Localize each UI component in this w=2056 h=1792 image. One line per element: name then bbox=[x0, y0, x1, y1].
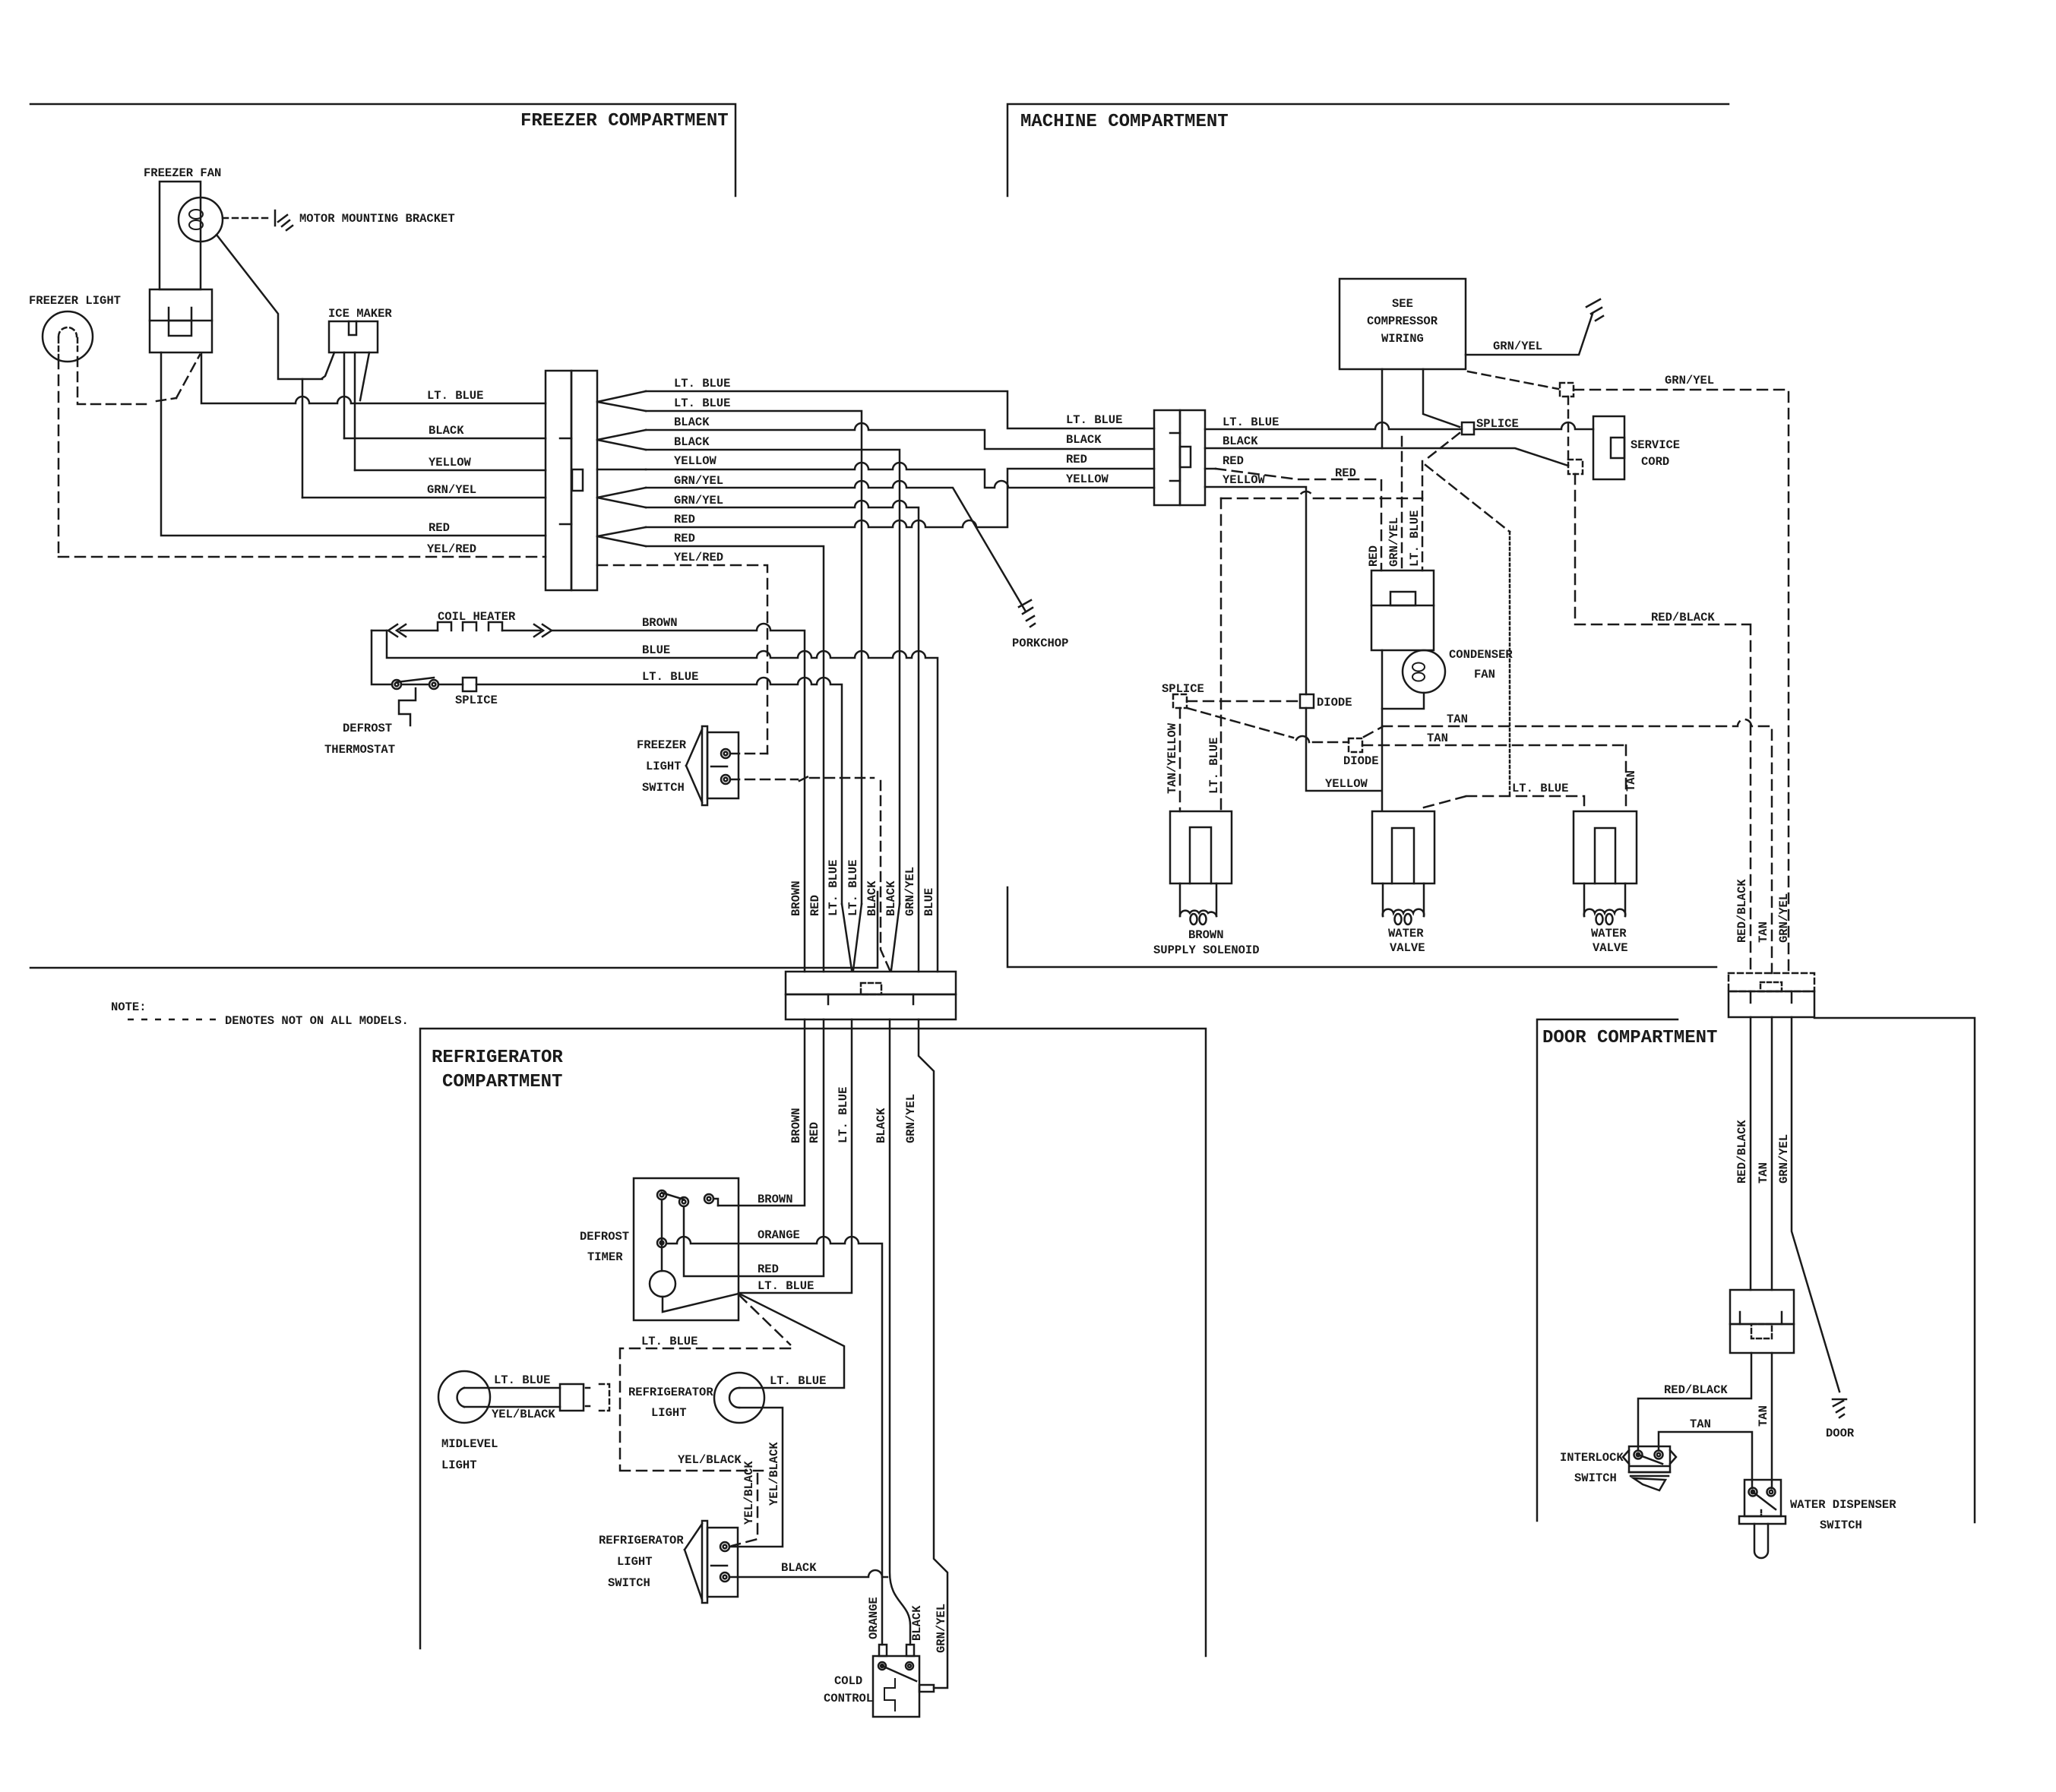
wire ORANGE from timer to cold control bbox=[666, 1237, 882, 1645]
porkchop ground symbol bbox=[1019, 600, 1035, 627]
svg-text:CORD: CORD bbox=[1641, 455, 1669, 469]
svg-text:REFRIGERATOR: REFRIGERATOR bbox=[599, 1534, 684, 1547]
svg-text:BROWN: BROWN bbox=[1188, 928, 1224, 942]
svg-text:FAN: FAN bbox=[1474, 668, 1495, 681]
svg-text:GRN/YEL: GRN/YEL bbox=[935, 1604, 948, 1653]
svg-text:SWITCH: SWITCH bbox=[1820, 1519, 1862, 1532]
freezer fan motor circle bbox=[179, 198, 223, 242]
svg-text:LT. BLUE: LT. BLUE bbox=[827, 860, 840, 916]
defrost thermostat sensing element bbox=[399, 688, 416, 725]
LT. BLUE dashed row to supply solenoid bbox=[1221, 491, 1422, 498]
wire RED dashed to compressor relay bbox=[1216, 469, 1381, 570]
svg-text:SWITCH: SWITCH bbox=[642, 781, 685, 795]
freezer fan mounting plate connector bbox=[150, 289, 212, 352]
wire YEL/RED dashed (drop to freezer light switch) bbox=[597, 565, 767, 754]
svg-text:BLACK: BLACK bbox=[781, 1561, 817, 1575]
svg-text:YELLOW: YELLOW bbox=[674, 454, 717, 468]
svg-text:FREEZER LIGHT: FREEZER LIGHT bbox=[29, 294, 121, 308]
wire RED/BLACK to interlock switch bbox=[1638, 1353, 1751, 1450]
svg-text:WATER: WATER bbox=[1388, 927, 1424, 940]
svg-text:COMPARTMENT: COMPARTMENT bbox=[442, 1072, 562, 1092]
wire RED row (freezer left) bbox=[161, 352, 546, 536]
svg-text:TAN: TAN bbox=[1757, 921, 1770, 943]
freezer light bulb bbox=[43, 311, 93, 362]
svg-text:BROWN: BROWN bbox=[642, 616, 678, 630]
svg-text:DOOR COMPARTMENT: DOOR COMPARTMENT bbox=[1542, 1028, 1717, 1048]
wire GRN/YEL lower (drop V3) bbox=[646, 501, 919, 972]
svg-text:BLACK: BLACK bbox=[875, 1108, 888, 1143]
svg-text:COMPRESSOR: COMPRESSOR bbox=[1367, 314, 1438, 328]
wire RED drop to defrost timer bbox=[684, 1019, 824, 1276]
wire LT. BLUE row through thermostat bbox=[372, 631, 842, 904]
svg-text:LT. BLUE: LT. BLUE bbox=[1408, 510, 1422, 567]
wire YEL/RED dashed into top terminal bbox=[730, 753, 767, 755]
coil heater humps bbox=[438, 622, 502, 631]
svg-text:YELLOW: YELLOW bbox=[429, 456, 472, 469]
rotated labels machine bbox=[1166, 510, 1638, 794]
svg-text:TAN: TAN bbox=[1624, 770, 1638, 792]
svg-text:RED: RED bbox=[429, 521, 450, 535]
svg-text:RED: RED bbox=[808, 895, 822, 916]
LT. BLUE dashed between water valves bbox=[1424, 796, 1584, 811]
svg-text:GRN/YEL: GRN/YEL bbox=[1493, 340, 1542, 353]
wire LT. BLUE upper (to machine) bbox=[646, 391, 1154, 428]
svg-text:SPLICE: SPLICE bbox=[455, 694, 498, 707]
defrost timer contact hook bbox=[713, 1199, 718, 1206]
refrigerator light switch pointer bbox=[685, 1524, 702, 1600]
svg-text:CONTROL: CONTROL bbox=[824, 1692, 873, 1705]
water valve 1 coil bbox=[1383, 909, 1425, 916]
wire LT. BLUE row (freezer left) bbox=[201, 354, 546, 403]
svg-text:LIGHT: LIGHT bbox=[651, 1406, 687, 1420]
freezer light dashed wire down-left (YEL/RED) bbox=[58, 359, 60, 557]
svg-text:LT. BLUE: LT. BLUE bbox=[1512, 782, 1568, 795]
wire YELLOW (to machine) bbox=[646, 463, 1154, 488]
supply solenoid coil bbox=[1180, 911, 1216, 916]
svg-text:ICE MAKER: ICE MAKER bbox=[328, 307, 392, 321]
refrigerator light bbox=[714, 1373, 764, 1423]
wire TAN interlock to dispenser bbox=[1659, 1432, 1752, 1488]
wire RED upper (rises to machine RED) bbox=[646, 469, 1154, 527]
freezer light switch plate bbox=[702, 726, 707, 805]
svg-text:YEL/RED: YEL/RED bbox=[427, 542, 476, 556]
ice maker pin 3 (YELLOW) bbox=[354, 352, 356, 470]
coil heater element (BROWN row) bbox=[372, 624, 805, 972]
svg-text:DEFROST: DEFROST bbox=[580, 1230, 629, 1244]
defrost timer box bbox=[634, 1178, 739, 1320]
LT. BLUE junction to refrigerator light bbox=[739, 1294, 844, 1388]
defrost timer motor bbox=[650, 1271, 675, 1297]
svg-text:LIGHT: LIGHT bbox=[617, 1555, 653, 1569]
svg-text:YELLOW: YELLOW bbox=[1223, 473, 1266, 487]
wire LT. BLUE lower (drop V1) bbox=[646, 411, 862, 904]
freezer light dashed wire to fan plug bbox=[77, 355, 200, 404]
svg-text:BLUE: BLUE bbox=[922, 888, 936, 916]
compressor relay box bbox=[1371, 570, 1434, 650]
water valve 1 box bbox=[1372, 811, 1434, 883]
svg-text:TAN: TAN bbox=[1427, 732, 1448, 745]
svg-text:GRN/YEL: GRN/YEL bbox=[427, 483, 476, 497]
midlevel light bbox=[438, 1371, 490, 1423]
svg-text:TAN: TAN bbox=[1690, 1417, 1711, 1431]
svg-text:GRN/YEL: GRN/YEL bbox=[904, 1094, 918, 1143]
svg-text:RED/BLACK: RED/BLACK bbox=[1735, 879, 1749, 943]
svg-text:BLACK: BLACK bbox=[429, 424, 464, 438]
svg-text:RED: RED bbox=[1066, 453, 1087, 466]
coil heater left arrows bbox=[388, 624, 406, 637]
ice maker box bbox=[329, 321, 378, 352]
refrigerator compartment border bbox=[420, 1029, 1206, 1656]
LT. BLUE dashed to midlevel circuit bbox=[620, 1295, 790, 1471]
svg-text:GRN/YEL: GRN/YEL bbox=[674, 494, 723, 507]
compressor relay GRN/YEL dashed lead bbox=[1401, 437, 1403, 570]
svg-text:LT. BLUE: LT. BLUE bbox=[427, 389, 483, 403]
wire LT. BLUE row to service cord bbox=[1205, 422, 1593, 429]
rotated wire labels above refrigerator connector bbox=[789, 860, 936, 916]
svg-text:LT. BLUE: LT. BLUE bbox=[1223, 416, 1279, 429]
svg-text:BLACK: BLACK bbox=[674, 435, 710, 449]
defrost timer switch arm bbox=[662, 1193, 684, 1199]
svg-text:SPLICE: SPLICE bbox=[1162, 682, 1204, 696]
freezer fan motor coil marks bbox=[189, 210, 203, 219]
freezer fan duct rectangle bbox=[160, 182, 201, 289]
svg-text:LT. BLUE: LT. BLUE bbox=[674, 377, 730, 390]
refrigerator light YEL/BLACK lead bbox=[730, 1408, 783, 1547]
svg-text:TAN: TAN bbox=[1447, 713, 1468, 726]
wire BLACK lower (drop V2) bbox=[646, 450, 900, 904]
splice on LT. BLUE row bbox=[1462, 422, 1474, 435]
defrost thermostat arm bbox=[397, 678, 434, 682]
svg-text:BLACK: BLACK bbox=[1066, 433, 1102, 447]
freezer light switch pointer bbox=[686, 729, 702, 802]
water dispenser switch bbox=[1744, 1480, 1781, 1516]
GRN/YEL dashed wire to door bbox=[1574, 390, 1789, 973]
wire BLACK row (freezer left) bbox=[344, 438, 546, 440]
wire BROWN drop to defrost timer bbox=[718, 1019, 805, 1206]
wire BLACK upper (to machine) bbox=[646, 423, 1154, 449]
svg-text:SUPPLY SOLENOID: SUPPLY SOLENOID bbox=[1153, 943, 1260, 957]
svg-text:ORANGE: ORANGE bbox=[758, 1228, 800, 1242]
supply solenoid box bbox=[1170, 811, 1232, 883]
water valve 2 box bbox=[1574, 811, 1637, 883]
condenser fan return wire bbox=[1382, 693, 1424, 709]
water valve 2 coil bbox=[1584, 909, 1626, 916]
door mid connector bbox=[1730, 1290, 1794, 1324]
svg-text:SWITCH: SWITCH bbox=[1574, 1471, 1617, 1485]
dashed diagonal splice to diode 2 bbox=[1187, 708, 1349, 742]
svg-text:TAN/YELLOW: TAN/YELLOW bbox=[1166, 722, 1179, 794]
compressor lead to BLACK row bbox=[1381, 369, 1384, 448]
condenser fan motor bbox=[1403, 650, 1445, 693]
svg-text:DEFROST: DEFROST bbox=[343, 722, 392, 735]
svg-text:SERVICE: SERVICE bbox=[1631, 438, 1680, 452]
rotated labels refrigerator bbox=[742, 1087, 948, 1653]
svg-text:ORANGE: ORANGE bbox=[867, 1597, 881, 1639]
GRN/YEL drop from ground junction bbox=[302, 379, 304, 498]
svg-text:GRN/YEL: GRN/YEL bbox=[1665, 374, 1714, 387]
svg-text:GRN/YEL: GRN/YEL bbox=[1387, 517, 1401, 567]
svg-text:DENOTES NOT ON ALL MODELS.: DENOTES NOT ON ALL MODELS. bbox=[225, 1014, 409, 1028]
dashed drop from grounding splice to service cord terminal bbox=[1567, 397, 1570, 460]
svg-text:RED: RED bbox=[758, 1263, 779, 1276]
freezer bulkhead connector body bbox=[546, 371, 571, 590]
svg-text:LT. BLUE: LT. BLUE bbox=[494, 1373, 550, 1387]
svg-text:FREEZER: FREEZER bbox=[637, 738, 687, 752]
svg-text:SPLICE: SPLICE bbox=[1476, 417, 1519, 431]
svg-text:DIODE: DIODE bbox=[1317, 696, 1352, 710]
compressor lead to splice bbox=[1423, 369, 1460, 427]
svg-text:LT. BLUE: LT. BLUE bbox=[837, 1087, 850, 1143]
svg-text:COIL HEATER: COIL HEATER bbox=[438, 610, 516, 624]
DOOR ground symbol bbox=[1833, 1399, 1846, 1417]
svg-text:TAN: TAN bbox=[1757, 1162, 1770, 1184]
svg-text:LT. BLUE: LT. BLUE bbox=[1066, 413, 1122, 427]
svg-text:DOOR: DOOR bbox=[1826, 1427, 1855, 1440]
door compartment border left bbox=[1537, 1019, 1678, 1521]
wire GRN/YEL drop to cold control bbox=[919, 1019, 947, 1688]
wire BLACK drop to cold control bbox=[890, 1019, 910, 1645]
svg-text:INTERLOCK: INTERLOCK bbox=[1560, 1451, 1624, 1465]
svg-text:MIDLEVEL: MIDLEVEL bbox=[441, 1437, 498, 1451]
splice box on LT. BLUE row bbox=[463, 678, 476, 691]
svg-text:NOTE:: NOTE: bbox=[111, 1000, 147, 1014]
svg-text:LT. BLUE: LT. BLUE bbox=[674, 397, 730, 410]
svg-text:WATER: WATER bbox=[1591, 927, 1627, 940]
svg-text:MACHINE COMPARTMENT: MACHINE COMPARTMENT bbox=[1020, 112, 1229, 132]
diode 2 (dashed) bbox=[1349, 738, 1362, 752]
svg-text:YELLOW: YELLOW bbox=[1066, 472, 1109, 486]
svg-text:BROWN: BROWN bbox=[789, 1108, 803, 1143]
svg-text:VALVE: VALVE bbox=[1593, 941, 1628, 955]
svg-text:RED: RED bbox=[1367, 545, 1381, 567]
svg-text:REFRIGERATOR: REFRIGERATOR bbox=[628, 1386, 713, 1399]
svg-text:RED/BLACK: RED/BLACK bbox=[1651, 611, 1715, 624]
svg-text:WATER DISPENSER: WATER DISPENSER bbox=[1790, 1498, 1896, 1512]
svg-text:RED: RED bbox=[808, 1122, 821, 1143]
svg-text:BROWN: BROWN bbox=[789, 880, 803, 916]
refrigerator light switch body bbox=[707, 1528, 738, 1597]
wire YELLOW down to water valve 1 bbox=[1205, 487, 1382, 811]
svg-text:FREEZER COMPARTMENT: FREEZER COMPARTMENT bbox=[520, 111, 729, 131]
svg-text:VALVE: VALVE bbox=[1390, 941, 1425, 955]
svg-text:BLACK: BLACK bbox=[910, 1605, 924, 1641]
machine bulkhead connector bbox=[1154, 410, 1180, 505]
svg-text:YEL/RED: YEL/RED bbox=[674, 551, 723, 564]
svg-text:CONDENSER: CONDENSER bbox=[1449, 648, 1513, 662]
svg-text:RED: RED bbox=[1335, 466, 1356, 480]
svg-text:SWITCH: SWITCH bbox=[608, 1576, 650, 1590]
dashed row splice to diode 1 bbox=[1187, 700, 1300, 703]
door bulkhead connector (dashed top) bbox=[1729, 973, 1814, 991]
svg-text:RED: RED bbox=[674, 513, 695, 526]
svg-text:BLACK: BLACK bbox=[1223, 435, 1258, 448]
RED/BLACK dashed wire to door bbox=[1575, 474, 1751, 973]
freezer compartment border bbox=[30, 104, 735, 196]
wire RED lower (drop to fridge) bbox=[646, 546, 824, 972]
service cord ground terminal (dashed square) bbox=[1568, 460, 1583, 474]
svg-text:YEL/BLACK: YEL/BLACK bbox=[742, 1461, 756, 1525]
diode 1 bbox=[1300, 694, 1314, 708]
fan motor ground diagonal wire bbox=[217, 235, 322, 379]
svg-text:GRN/YEL: GRN/YEL bbox=[674, 474, 723, 488]
svg-text:BROWN: BROWN bbox=[758, 1193, 793, 1206]
svg-text:BLACK: BLACK bbox=[884, 880, 898, 916]
refrigerator bulkhead connector bbox=[786, 972, 956, 994]
ice maker pin 1 to ground net bbox=[322, 352, 334, 378]
machine compartment bottom border bbox=[1007, 887, 1716, 967]
svg-text:THERMOSTAT: THERMOSTAT bbox=[324, 743, 395, 757]
wire YEL/RED dashed row (freezer left) bbox=[59, 556, 546, 558]
svg-text:DIODE: DIODE bbox=[1343, 754, 1379, 768]
svg-text:LIGHT: LIGHT bbox=[441, 1459, 477, 1472]
svg-text:COLD: COLD bbox=[834, 1674, 862, 1688]
freezer light switch body bbox=[707, 732, 739, 798]
compressor GRN/YEL ground wire bbox=[1466, 314, 1593, 355]
svg-text:YEL/BLACK: YEL/BLACK bbox=[678, 1453, 742, 1467]
ice maker pin 4 diagonal to LT.BLUE row bbox=[360, 352, 369, 400]
svg-text:GRN/YEL: GRN/YEL bbox=[903, 867, 917, 916]
wire GRN/YEL to DOOR ground bbox=[1792, 1017, 1839, 1392]
SEE COMPRESSOR WIRING box bbox=[1340, 279, 1466, 369]
svg-text:YEL/BLACK: YEL/BLACK bbox=[492, 1408, 555, 1421]
connector fan-out junctions bbox=[597, 391, 646, 411]
ice maker pin 2 (BLACK) bbox=[343, 352, 346, 438]
interlock switch bbox=[1629, 1446, 1670, 1472]
coil heater right arrows bbox=[534, 624, 552, 637]
svg-text:GRN/YEL: GRN/YEL bbox=[1777, 893, 1791, 943]
svg-text:LT. BLUE: LT. BLUE bbox=[758, 1279, 814, 1293]
YEL/BLACK dashed drop to switch bbox=[732, 1474, 758, 1546]
svg-text:YEL/BLACK: YEL/BLACK bbox=[767, 1442, 781, 1506]
machine compartment border top bbox=[1007, 104, 1729, 196]
motor mounting bracket dashed leader bbox=[223, 217, 272, 220]
LT. BLUE dashed drop to water valves bbox=[1509, 532, 1511, 796]
cold control box bbox=[873, 1656, 919, 1717]
BLACK pair merge into connector bbox=[891, 904, 900, 970]
svg-text:SEE: SEE bbox=[1392, 297, 1413, 311]
TAN/YELLOW dashed drop to supply solenoid bbox=[1179, 708, 1181, 811]
svg-text:RED/BLACK: RED/BLACK bbox=[1664, 1383, 1728, 1397]
svg-text:LT. BLUE: LT. BLUE bbox=[1207, 738, 1221, 794]
grounding splice (dashed) bbox=[1560, 383, 1574, 397]
svg-text:GRN/YEL: GRN/YEL bbox=[1777, 1134, 1791, 1184]
svg-text:PORKCHOP: PORKCHOP bbox=[1012, 637, 1068, 650]
svg-text:TAN: TAN bbox=[1757, 1405, 1770, 1427]
svg-text:RED: RED bbox=[1223, 454, 1244, 468]
compressor relay LT. BLUE dashed lead bbox=[1422, 433, 1510, 570]
service cord box bbox=[1593, 416, 1624, 479]
defrost thermostat terminals bbox=[392, 680, 401, 689]
svg-text:LT. BLUE: LT. BLUE bbox=[641, 1335, 697, 1348]
freezer compartment bottom border bbox=[30, 892, 878, 968]
defrost timer terminals bbox=[657, 1190, 666, 1199]
wire TAN to water dispenser switch bbox=[1771, 1353, 1773, 1488]
svg-text:RED/BLACK: RED/BLACK bbox=[1735, 1120, 1749, 1184]
svg-text:MOTOR MOUNTING BRACKET: MOTOR MOUNTING BRACKET bbox=[299, 212, 455, 226]
wire TAN lower dashed to water valve 2 bbox=[1362, 745, 1626, 811]
LT.BLUE pair merge into connector bbox=[842, 904, 862, 970]
svg-text:LT. BLUE: LT. BLUE bbox=[642, 670, 698, 684]
wire GRN/YEL row (freezer left) bbox=[302, 497, 546, 499]
wire YELLOW row (freezer left) bbox=[355, 469, 546, 472]
wire GRN/YEL upper to porkchop ground bbox=[646, 481, 1026, 612]
freezer light switch terminals bbox=[721, 749, 730, 758]
svg-text:BLUE: BLUE bbox=[642, 643, 670, 657]
wire RED machine row bbox=[1205, 468, 1216, 470]
svg-text:BLACK: BLACK bbox=[865, 880, 879, 916]
compressor ground symbol bbox=[1586, 299, 1603, 321]
svg-text:LT. BLUE: LT. BLUE bbox=[846, 860, 860, 916]
svg-text:TIMER: TIMER bbox=[587, 1250, 623, 1264]
svg-text:LIGHT: LIGHT bbox=[646, 760, 682, 773]
svg-text:LT. BLUE: LT. BLUE bbox=[770, 1374, 826, 1388]
svg-text:FREEZER FAN: FREEZER FAN bbox=[144, 166, 221, 180]
wire RED/BLACK door drop bbox=[1750, 1017, 1752, 1290]
splice (dashed) machine center bbox=[1173, 694, 1187, 708]
wire BLUE row from coil heater bbox=[387, 631, 938, 972]
svg-text:BLACK: BLACK bbox=[674, 416, 710, 429]
svg-text:REFRIGERATOR: REFRIGERATOR bbox=[432, 1048, 563, 1068]
wire BLACK from switch bbox=[729, 1570, 887, 1577]
wire LT. BLUE drop to junction bbox=[739, 1019, 852, 1293]
midlevel connector bbox=[560, 1384, 584, 1411]
wire TAN upper dashed to door TAN bbox=[1364, 719, 1772, 973]
svg-text:WIRING: WIRING bbox=[1381, 332, 1424, 346]
refrigerator light switch plate bbox=[702, 1521, 707, 1603]
wire BLACK row to service cord terminal bbox=[1205, 448, 1568, 466]
svg-text:YELLOW: YELLOW bbox=[1325, 777, 1368, 791]
door compartment border right bbox=[1814, 1018, 1975, 1522]
svg-text:RED: RED bbox=[674, 532, 695, 545]
rotated labels door bbox=[1735, 879, 1791, 1427]
wire dashed from bottom terminal to BLACK drop bbox=[730, 778, 890, 970]
motor mounting bracket symbol bbox=[275, 210, 293, 230]
wire TAN door drop bbox=[1771, 1017, 1773, 1290]
